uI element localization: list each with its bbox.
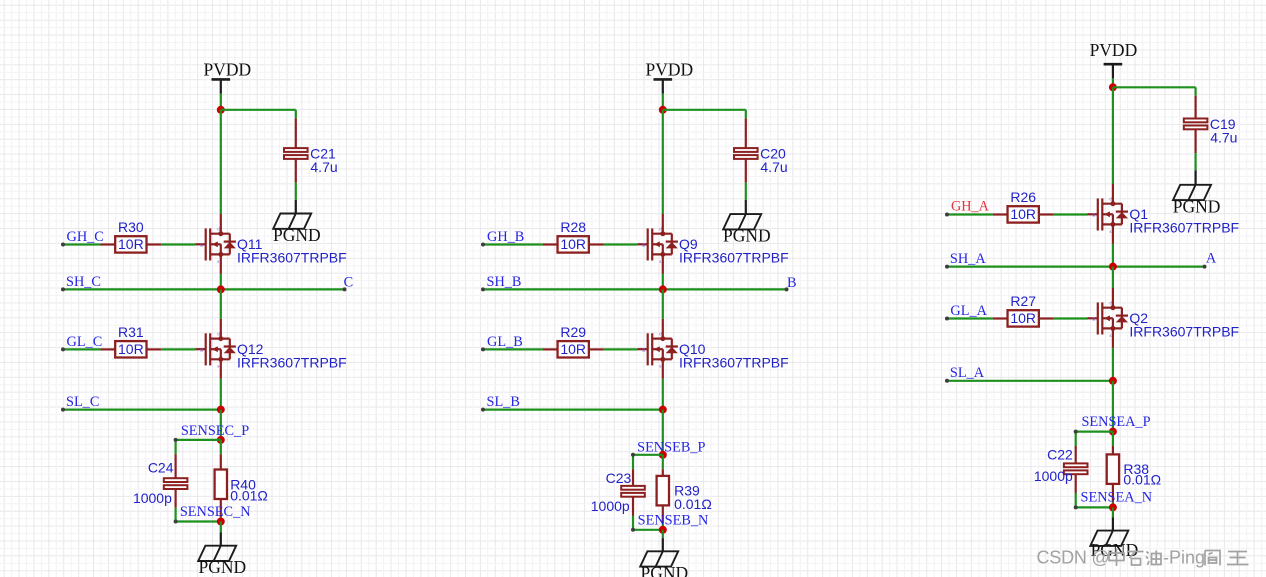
wire: [1112, 78, 1114, 87]
wire: [662, 289, 664, 319]
svg-text:4.7u: 4.7u: [310, 159, 337, 175]
wire: [220, 379, 222, 410]
junction: [1109, 83, 1117, 91]
resistor R31 left pin: [101, 348, 116, 350]
resistor R27 right pin: [1039, 317, 1054, 319]
wire: [1194, 153, 1196, 170]
transistor Q9 drain pin: [662, 214, 664, 234]
transistor Q11 drain pin: [220, 214, 222, 234]
resistor R40: [215, 470, 227, 500]
wire: [1074, 430, 1113, 446]
wire: [604, 348, 638, 350]
svg-text:10R: 10R: [118, 341, 144, 357]
power port PVDD (phase B) bar: [654, 79, 673, 93]
svg-text:s: s: [217, 259, 219, 265]
resistor R27 left pin: [993, 317, 1008, 319]
transistor Q2 drain pin: [1112, 288, 1114, 308]
wire: [663, 110, 746, 119]
svg-text:4.7u: 4.7u: [1210, 129, 1237, 145]
ground PGND (phase C bottom): [198, 546, 236, 561]
svg-text:s: s: [1109, 333, 1111, 339]
svg-text:10R: 10R: [118, 236, 144, 252]
capacitor C21 bottom pin: [295, 159, 297, 183]
transistor Q1 source pin: [1112, 224, 1114, 244]
resistor R29 left pin: [543, 348, 558, 350]
wire: [220, 522, 222, 533]
resistor R31: [115, 341, 146, 357]
svg-text:GH_B: GH_B: [487, 229, 524, 245]
svg-text:R26: R26: [1010, 189, 1036, 205]
wire: [662, 410, 664, 455]
svg-text:GL_C: GL_C: [67, 334, 103, 350]
svg-text:d: d: [217, 227, 220, 233]
wire: [631, 453, 663, 469]
wire SH net (phase A): [945, 265, 1207, 269]
wire: [61, 408, 221, 412]
wire: [945, 213, 993, 217]
resistor R28 left pin: [543, 243, 558, 245]
capacitor C23 top pin: [632, 469, 634, 486]
resistor R29 right pin: [589, 348, 604, 350]
wire: [604, 243, 638, 245]
svg-text:R28: R28: [560, 219, 586, 235]
svg-text:IRFR3607TRPBF: IRFR3607TRPBF: [679, 250, 789, 266]
svg-text:SENSEB_N: SENSEB_N: [638, 512, 709, 528]
svg-text:R31: R31: [118, 324, 144, 340]
ground PGND pin: [662, 538, 664, 551]
power port PVDD (phase C) bar: [212, 79, 231, 93]
svg-text:R29: R29: [560, 324, 586, 340]
ground PGND (phase A top): [1173, 185, 1211, 200]
resistor R26 left pin: [993, 213, 1008, 215]
wire: [1112, 87, 1114, 184]
wire: [481, 347, 543, 351]
wire: [1074, 493, 1113, 509]
capacitor C19 top pin: [1194, 96, 1196, 119]
capacitor C20 bottom pin: [745, 159, 747, 183]
transistor Q9 source pin: [662, 254, 664, 274]
wire: [945, 317, 993, 321]
wire: [1054, 317, 1088, 319]
power port PVDD (phase A) bar: [1104, 64, 1123, 78]
transistor Q2: [1088, 301, 1129, 339]
ground PGND (phase C top): [273, 214, 311, 229]
svg-text:10R: 10R: [560, 236, 586, 252]
svg-text:g: g: [1092, 316, 1095, 322]
svg-text:d: d: [1109, 197, 1112, 203]
svg-text:GH_A: GH_A: [951, 199, 990, 215]
svg-text:10R: 10R: [560, 341, 586, 357]
capacitor C21 top pin: [295, 118, 297, 148]
svg-text:CSDN @: CSDN @: [1037, 548, 1110, 568]
wire: [662, 379, 664, 410]
svg-text:R30: R30: [118, 219, 144, 235]
svg-text:SH_C: SH_C: [66, 274, 101, 290]
svg-text:SL_B: SL_B: [487, 394, 520, 410]
svg-text:0.01Ω: 0.01Ω: [230, 488, 268, 504]
wire: [662, 110, 664, 214]
resistor R39 top pin: [662, 469, 664, 476]
wire: [662, 523, 664, 529]
capacitor C19 bottom pin: [1194, 129, 1196, 153]
resistor R38 top pin: [1112, 446, 1114, 454]
junction SENSEC_N node: [217, 518, 225, 526]
transistor Q12: [195, 332, 236, 370]
ground PGND pin: [295, 200, 297, 214]
resistor R40 bottom pin: [220, 499, 222, 517]
svg-text:10R: 10R: [1010, 310, 1036, 326]
junction SENSEA_N node: [1109, 503, 1117, 511]
wire: [174, 508, 221, 524]
transistor Q10 drain pin: [662, 319, 664, 339]
svg-text:PGND: PGND: [273, 225, 321, 245]
wire: [220, 410, 222, 440]
wire: [662, 455, 664, 469]
ground PGND (phase B top): [723, 214, 761, 229]
wire: [1112, 244, 1114, 267]
svg-text:GL_B: GL_B: [487, 334, 523, 350]
svg-text:PGND: PGND: [198, 557, 246, 577]
wire: [174, 438, 221, 454]
svg-text:C22: C22: [1047, 447, 1073, 463]
wire: [220, 289, 222, 319]
resistor R29: [558, 341, 589, 357]
svg-text:SENSEC_P: SENSEC_P: [181, 423, 249, 439]
svg-text:GH_C: GH_C: [67, 229, 104, 245]
svg-text:PVDD: PVDD: [203, 59, 251, 79]
junction SENSEC_P node: [217, 436, 225, 444]
resistor R39 bottom pin: [662, 505, 664, 523]
svg-text:g: g: [642, 347, 645, 353]
svg-text:0.01Ω: 0.01Ω: [1123, 472, 1161, 488]
wire: [1112, 507, 1114, 517]
junction: [659, 106, 667, 114]
wire: [481, 243, 543, 247]
svg-text:s: s: [659, 259, 661, 265]
svg-text:g: g: [1092, 212, 1095, 218]
wire: [295, 183, 297, 200]
wire: [481, 408, 663, 412]
transistor Q11: [195, 227, 236, 265]
svg-text:SENSEC_N: SENSEC_N: [180, 504, 251, 520]
svg-text:C24: C24: [148, 460, 174, 476]
svg-text:PVDD: PVDD: [1090, 40, 1138, 60]
wire: [220, 93, 222, 109]
svg-text:1000p: 1000p: [1034, 468, 1073, 484]
svg-text:1000p: 1000p: [133, 490, 172, 506]
capacitor C22 bottom pin: [1075, 474, 1077, 493]
wire: [161, 243, 195, 245]
svg-text:C23: C23: [606, 470, 632, 486]
svg-text:SH_A: SH_A: [950, 251, 986, 267]
svg-text:IRFR3607TRPBF: IRFR3607TRPBF: [679, 354, 789, 370]
capacitor C19: [1184, 119, 1208, 130]
svg-text:IRFR3607TRPBF: IRFR3607TRPBF: [237, 354, 347, 370]
svg-text:PGND: PGND: [640, 563, 688, 577]
svg-text:d: d: [659, 227, 662, 233]
ground PGND pin: [1112, 517, 1114, 530]
svg-text:SH_B: SH_B: [487, 274, 522, 290]
transistor Q1: [1088, 197, 1129, 235]
capacitor C20 top pin: [745, 118, 747, 148]
svg-text:SENSEB_P: SENSEB_P: [637, 439, 705, 455]
wire: [1112, 502, 1114, 507]
svg-text:s: s: [217, 364, 219, 370]
wire: [631, 516, 663, 532]
svg-text:4.7u: 4.7u: [760, 159, 787, 175]
resistor R26: [1008, 206, 1039, 222]
ground PGND (phase A bottom): [1090, 531, 1128, 546]
svg-text:C: C: [344, 274, 354, 290]
watermark CJK characters 中石油: [1109, 549, 1161, 567]
capacitor C21: [284, 148, 308, 159]
junction: [659, 406, 667, 414]
resistor R38: [1107, 454, 1119, 484]
junction: [217, 406, 225, 414]
capacitor C24 bottom pin: [175, 489, 177, 508]
wire: [662, 274, 664, 290]
svg-text:R27: R27: [1010, 293, 1036, 309]
capacitor C24: [164, 478, 188, 489]
transistor Q12 drain pin: [220, 319, 222, 339]
wire: [662, 93, 664, 109]
transistor Q9: [637, 227, 678, 265]
svg-text:SENSEA_P: SENSEA_P: [1081, 414, 1150, 430]
wire: [745, 183, 747, 200]
svg-text:1000p: 1000p: [591, 498, 630, 514]
transistor Q1 drain pin: [1112, 184, 1114, 204]
wire: [220, 110, 222, 214]
resistor R31 right pin: [147, 348, 162, 350]
wire: [1112, 348, 1114, 381]
svg-text:IRFR3607TRPBF: IRFR3607TRPBF: [1129, 220, 1239, 236]
junction: [1109, 263, 1117, 271]
wire: [61, 347, 101, 351]
resistor R40 top pin: [220, 454, 222, 469]
wire: [945, 379, 1113, 383]
resistor R30 right pin: [147, 243, 162, 245]
wire: [220, 517, 222, 521]
wire: [220, 274, 222, 290]
resistor R39: [657, 476, 669, 506]
wire SH net (phase B): [481, 287, 789, 291]
capacitor C23 bottom pin: [632, 497, 634, 516]
junction: [659, 285, 667, 293]
svg-text:PVDD: PVDD: [645, 59, 693, 79]
resistor R28: [558, 236, 589, 252]
svg-text:s: s: [1109, 229, 1111, 235]
resistor R28 right pin: [589, 243, 604, 245]
svg-text:IRFR3607TRPBF: IRFR3607TRPBF: [237, 250, 347, 266]
capacitor C23: [621, 486, 645, 497]
ground PGND pin: [745, 200, 747, 214]
svg-text:d: d: [659, 332, 662, 338]
svg-text:10R: 10R: [1010, 206, 1036, 222]
junction: [217, 106, 225, 114]
wire: [220, 440, 222, 454]
svg-text:PGND: PGND: [723, 226, 771, 246]
wire: [1113, 87, 1196, 96]
svg-text:s: s: [659, 364, 661, 370]
transistor Q10 source pin: [662, 359, 664, 379]
transistor Q11 source pin: [220, 254, 222, 274]
svg-text:SL_A: SL_A: [950, 365, 985, 381]
junction SENSEB_P node: [659, 451, 667, 459]
junction: [217, 285, 225, 293]
capacitor C24 top pin: [175, 454, 177, 478]
wire: [1112, 432, 1114, 446]
wire: [61, 243, 101, 247]
wire: [1054, 213, 1088, 215]
svg-text:-Ping: -Ping: [1163, 548, 1205, 568]
ground PGND pin: [1194, 170, 1196, 185]
transistor Q2 source pin: [1112, 328, 1114, 348]
resistor R30: [115, 236, 146, 252]
resistor R38 bottom pin: [1112, 484, 1114, 502]
resistor R26 right pin: [1039, 213, 1054, 215]
svg-text:SL_C: SL_C: [66, 394, 99, 410]
resistor R30 left pin: [101, 243, 116, 245]
watermark CJK characters 阎王: [1205, 551, 1249, 566]
svg-text:IRFR3607TRPBF: IRFR3607TRPBF: [1129, 324, 1239, 340]
wire: [161, 348, 195, 350]
ground PGND (phase B bottom): [640, 551, 678, 566]
svg-text:B: B: [787, 275, 797, 291]
wire SH net (phase C): [61, 287, 347, 291]
svg-text:A: A: [1206, 251, 1217, 267]
svg-text:g: g: [200, 242, 203, 248]
ground PGND pin: [220, 533, 222, 546]
svg-text:d: d: [217, 332, 220, 338]
wire: [1112, 267, 1114, 288]
transistor Q10: [637, 332, 678, 370]
svg-text:0.01Ω: 0.01Ω: [674, 496, 712, 512]
wire: [662, 530, 664, 538]
svg-text:SENSEA_N: SENSEA_N: [1081, 489, 1153, 505]
wire: [1112, 381, 1114, 432]
svg-text:d: d: [1109, 301, 1112, 307]
svg-text:g: g: [200, 347, 203, 353]
junction: [1109, 377, 1117, 385]
capacitor C20: [734, 148, 758, 159]
svg-text:PGND: PGND: [1173, 196, 1221, 216]
resistor R27: [1008, 310, 1039, 326]
capacitor C22: [1064, 463, 1088, 474]
svg-text:g: g: [642, 242, 645, 248]
svg-text:GL_A: GL_A: [950, 303, 987, 319]
transistor Q12 source pin: [220, 359, 222, 379]
junction SENSEB_N node: [659, 526, 667, 534]
junction SENSEA_P node: [1109, 428, 1117, 436]
capacitor C22 top pin: [1075, 446, 1077, 463]
wire: [221, 110, 296, 119]
